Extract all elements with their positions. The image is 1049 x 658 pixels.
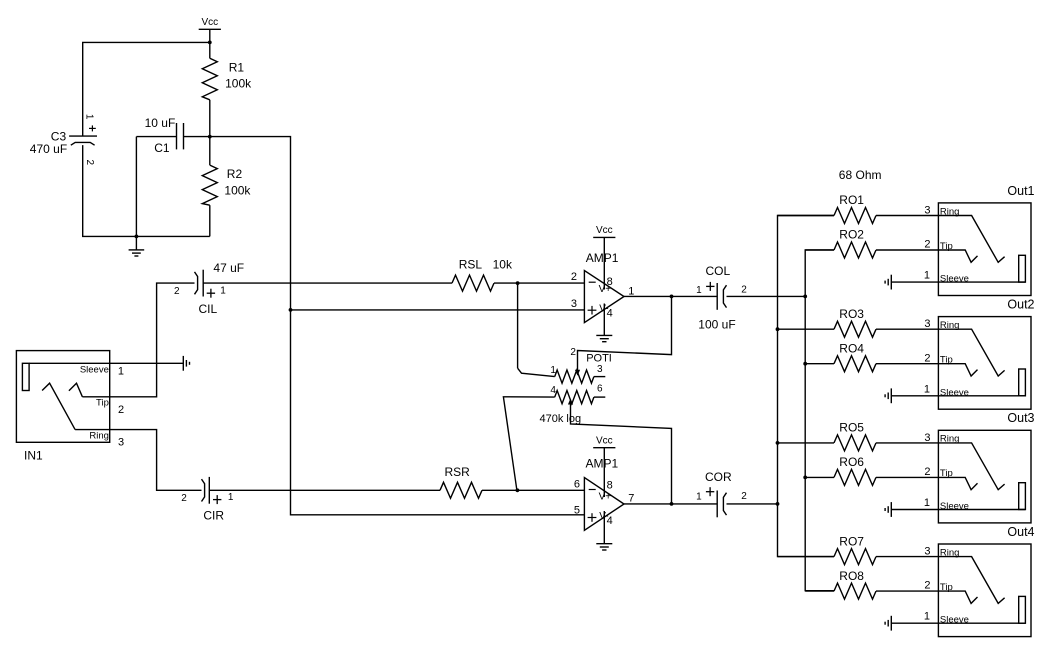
- svg-text:1: 1: [228, 492, 234, 503]
- wire POTI wiper A to output (left ch): [578, 296, 672, 370]
- connector Out3 jack body: [938, 430, 1031, 523]
- svg-text:3: 3: [924, 546, 930, 558]
- svg-text:6: 6: [574, 478, 580, 490]
- wire POTI wiper B to output (right ch): [571, 404, 672, 504]
- junction R1/R2/C1 node: [208, 135, 212, 139]
- AMP1 bottom inverting input mark -: [589, 489, 596, 491]
- wire IN1 tip to CIL: [110, 283, 195, 397]
- wire RO6 to Out3 tip: [876, 476, 938, 478]
- svg-text:7: 7: [628, 493, 634, 505]
- wire tip bus to RO4: [805, 363, 834, 365]
- ground (IN1 sleeve): [182, 356, 184, 371]
- svg-text:RO1: RO1: [839, 193, 864, 207]
- svg-text:RO6: RO6: [839, 455, 864, 469]
- svg-text:Out2: Out2: [1007, 298, 1034, 312]
- wire AMP1 bottom output: [624, 503, 717, 505]
- connector Out1 jack body: [938, 203, 1031, 296]
- svg-text:3: 3: [924, 432, 930, 444]
- svg-text:1: 1: [924, 383, 930, 395]
- svg-text:Ring: Ring: [940, 547, 960, 558]
- svg-text:Ring: Ring: [940, 206, 960, 217]
- capacitor CIL: [202, 270, 204, 297]
- svg-text:AMP1: AMP1: [586, 251, 619, 265]
- COL polarity +: [706, 285, 714, 287]
- wire tip bus to RO2: [805, 249, 834, 251]
- svg-text:8: 8: [607, 276, 613, 288]
- svg-text:Tip: Tip: [940, 355, 953, 366]
- ground (AMP1 bottom): [596, 543, 612, 545]
- AMP1 top pin 4 stem: [603, 304, 605, 336]
- Out1 ring contact: [938, 216, 1004, 263]
- svg-text:Sleeve: Sleeve: [940, 615, 969, 626]
- svg-text:1: 1: [924, 270, 930, 282]
- svg-text:R1: R1: [229, 61, 245, 75]
- AMP1 bottom pin 4 stem: [603, 511, 605, 544]
- Out3 sleeve contact: [1019, 483, 1026, 510]
- svg-text:RO7: RO7: [839, 534, 864, 548]
- junction AMP1 bottom output node: [670, 502, 674, 506]
- svg-text:Sleeve: Sleeve: [940, 387, 969, 398]
- svg-text:Sleeve: Sleeve: [940, 274, 969, 285]
- capacitor C1: [136, 136, 176, 138]
- svg-text:68 Ohm: 68 Ohm: [839, 168, 882, 182]
- junction RSR/pin6/POTI-4 node: [516, 488, 520, 492]
- ground (bias network): [135, 236, 137, 250]
- svg-text:Sleeve: Sleeve: [80, 364, 109, 375]
- svg-text:2: 2: [118, 404, 124, 416]
- svg-text:Out1: Out1: [1007, 184, 1034, 198]
- svg-text:Vcc: Vcc: [596, 225, 613, 236]
- svg-text:CIR: CIR: [203, 509, 224, 523]
- svg-text:1: 1: [118, 366, 124, 378]
- svg-text:Tip: Tip: [940, 468, 953, 479]
- wire ground to Out4 sleeve: [891, 622, 1025, 624]
- resistor RO6: [834, 469, 876, 485]
- svg-text:RO3: RO3: [839, 307, 864, 321]
- IN1 ring contact: [42, 383, 75, 429]
- svg-text:470k log: 470k log: [540, 413, 582, 425]
- wire RO4 to Out2 tip: [876, 363, 938, 365]
- Out3 ring contact: [938, 443, 1004, 490]
- wire RSL to AMP1 pin 2: [494, 282, 584, 284]
- AMP1 bottom non-inverting input mark +: [588, 517, 597, 519]
- svg-text:100k: 100k: [224, 184, 251, 198]
- resistor RO3: [834, 321, 876, 337]
- wire RO8 to Out4 tip: [876, 590, 938, 592]
- COR polarity +: [706, 491, 714, 493]
- Out4 ring contact: [938, 557, 1004, 604]
- op-amp AMP1 (left channel) triangle: [584, 271, 624, 323]
- Out1 sleeve contact: [1019, 255, 1026, 282]
- svg-text:2: 2: [924, 239, 930, 251]
- wire Vcc node to C3 top: [83, 42, 210, 136]
- Out2 tip contact: [938, 364, 977, 376]
- junction COR to ring bus: [776, 502, 780, 506]
- svg-text:RO8: RO8: [839, 569, 864, 583]
- wire bias node to vertical bus: [210, 137, 585, 515]
- svg-text:2: 2: [174, 286, 180, 297]
- svg-text:2: 2: [924, 466, 930, 478]
- svg-text:1: 1: [220, 286, 226, 297]
- svg-text:Out4: Out4: [1007, 525, 1034, 539]
- resistor RO7: [834, 549, 876, 565]
- IN1 sleeve contact: [22, 363, 29, 390]
- Out4 tip contact: [938, 591, 977, 603]
- wire C1 left to ground rail: [135, 137, 137, 237]
- resistor R2: [209, 137, 211, 166]
- svg-text:RSR: RSR: [445, 465, 471, 479]
- svg-text:3: 3: [924, 318, 930, 330]
- resistor R1: [209, 42, 211, 58]
- svg-text:2: 2: [571, 271, 577, 283]
- svg-text:1: 1: [84, 114, 95, 120]
- wire IN1 sleeve to ground: [110, 362, 184, 364]
- resistor RO2: [834, 242, 876, 258]
- svg-text:Ring: Ring: [940, 320, 960, 331]
- wire RO3 to Out2 ring: [876, 328, 938, 330]
- svg-text:2: 2: [84, 160, 95, 166]
- POTI gang A lead pin 3: [594, 376, 605, 378]
- svg-text:2: 2: [570, 347, 576, 358]
- svg-text:RO2: RO2: [839, 228, 864, 242]
- svg-text:4: 4: [550, 385, 556, 396]
- svg-text:CIL: CIL: [199, 302, 218, 316]
- svg-text:1: 1: [924, 497, 930, 509]
- Out2 sleeve contact: [1019, 369, 1026, 396]
- ground (Out1 sleeve): [890, 275, 892, 290]
- svg-text:Out3: Out3: [1007, 411, 1034, 425]
- junction ring bus to RO5: [776, 441, 780, 445]
- svg-text:POTI: POTI: [586, 353, 612, 365]
- POTI gang B wiper arrow: [568, 399, 573, 405]
- svg-text:Tip: Tip: [940, 241, 953, 252]
- wire AMP1 top output: [624, 295, 717, 297]
- svg-text:1: 1: [550, 365, 556, 376]
- svg-text:6: 6: [597, 383, 603, 394]
- connector IN1 jack body: [16, 351, 109, 443]
- svg-text:8: 8: [607, 479, 613, 491]
- svg-text:3: 3: [597, 364, 603, 375]
- junction RSL/pin2/POTI-1 node: [516, 281, 520, 285]
- wire ring bus to RO1: [778, 215, 835, 217]
- connector Out4 jack body: [938, 544, 1031, 637]
- AMP1 top non-inverting input mark +: [588, 309, 597, 311]
- capacitor COR: [716, 491, 718, 518]
- junction COL to tip bus: [803, 295, 807, 299]
- capacitor COL: [716, 283, 718, 310]
- wire POTI pin 4 to inverting node (right ch): [503, 397, 554, 491]
- capacitor C3: [69, 135, 97, 137]
- svg-text:2: 2: [924, 352, 930, 364]
- AMP1 top inverting input mark -: [589, 281, 596, 283]
- op-amp AMP1 (right channel) triangle: [584, 478, 624, 531]
- svg-text:RO4: RO4: [839, 341, 864, 355]
- wire ring bus to RO5: [778, 442, 835, 444]
- C3 polarity +: [89, 127, 96, 129]
- Out4 sleeve contact: [1019, 596, 1026, 623]
- svg-text:IN1: IN1: [24, 448, 43, 462]
- svg-text:4: 4: [607, 515, 613, 527]
- potentiometer POTI gang A element: [555, 370, 594, 383]
- wire RSR to AMP1 pin 6: [482, 489, 584, 491]
- svg-text:C1: C1: [154, 141, 170, 155]
- junction tip bus to RO6: [803, 476, 807, 480]
- wire ring bus to RO3: [778, 328, 835, 330]
- wire RO5 to Out3 ring: [876, 442, 938, 444]
- svg-text:100 uF: 100 uF: [698, 318, 735, 332]
- CIR polarity +: [213, 499, 221, 501]
- svg-text:Sleeve: Sleeve: [940, 501, 969, 512]
- svg-text:1: 1: [696, 285, 702, 296]
- resistor RSR: [440, 482, 482, 498]
- resistor RO4: [834, 356, 876, 372]
- Out3 tip contact: [938, 477, 977, 489]
- junction tip bus to RO4: [803, 362, 807, 366]
- ground (Out4 sleeve): [890, 616, 892, 631]
- junction ring bus to RO3: [776, 327, 780, 331]
- junction bias bus to op-amp pin3 branch: [289, 308, 293, 312]
- wire ring bus (right channel): [778, 216, 835, 557]
- svg-text:3: 3: [571, 298, 577, 310]
- svg-text:Ring: Ring: [89, 431, 109, 442]
- svg-text:4: 4: [607, 308, 613, 320]
- svg-text:5: 5: [574, 505, 580, 517]
- wire bias bus to AMP1 pin 3: [291, 309, 585, 311]
- svg-text:10 uF: 10 uF: [145, 116, 176, 130]
- junction AMP1 top output node: [670, 295, 674, 299]
- connector Out2 jack body: [938, 317, 1031, 410]
- svg-text:AMP1: AMP1: [586, 457, 619, 471]
- svg-text:47 uF: 47 uF: [213, 261, 244, 275]
- POTI gang B lead pin 6: [594, 396, 605, 398]
- CIL polarity +: [207, 292, 215, 294]
- IN1 tip contact: [69, 383, 83, 397]
- svg-text:Tip: Tip: [940, 582, 953, 593]
- svg-text:2: 2: [741, 491, 747, 502]
- junction Vcc/R1/C3 node: [208, 41, 212, 45]
- svg-text:10k: 10k: [493, 257, 513, 271]
- junction ground rail node: [135, 235, 139, 239]
- svg-text:RO5: RO5: [839, 421, 864, 435]
- svg-text:1: 1: [696, 492, 702, 503]
- wire ground to Out2 sleeve: [891, 395, 1025, 397]
- wire ring bus to RO7: [778, 556, 835, 558]
- wire ground to Out1 sleeve: [891, 281, 1025, 283]
- ground (Out2 sleeve): [890, 388, 892, 403]
- capacitor CIR: [208, 477, 210, 504]
- svg-text:Tip: Tip: [96, 398, 109, 409]
- svg-text:3: 3: [118, 437, 124, 449]
- svg-text:1: 1: [924, 611, 930, 623]
- resistor RO8: [834, 583, 876, 599]
- svg-text:COR: COR: [705, 470, 732, 484]
- resistor RO5: [834, 435, 876, 451]
- wire IN1 ring to CIR: [110, 430, 202, 491]
- POTI gang A wiper arrow: [575, 370, 580, 376]
- svg-text:100k: 100k: [225, 76, 252, 90]
- ground (AMP1 top): [596, 334, 612, 336]
- wire tip bus (left channel): [805, 250, 834, 591]
- wire RO7 to Out4 ring: [876, 556, 938, 558]
- wire RO1 to Out1 ring: [876, 215, 938, 217]
- wire tip bus to RO6: [805, 476, 834, 478]
- wire tip bus to RO8: [805, 590, 834, 592]
- ground (Out3 sleeve): [890, 502, 892, 517]
- svg-text:Vcc: Vcc: [596, 435, 613, 446]
- Out1 tip contact: [938, 250, 977, 262]
- svg-text:3: 3: [924, 204, 930, 216]
- resistor RSL: [452, 275, 494, 291]
- svg-text:Vcc: Vcc: [201, 17, 218, 28]
- resistor RO1: [834, 208, 876, 224]
- svg-text:RSL: RSL: [459, 257, 483, 271]
- svg-text:Ring: Ring: [940, 434, 960, 445]
- wire ground to Out3 sleeve: [891, 509, 1025, 511]
- svg-text:COL: COL: [706, 264, 731, 278]
- Out2 ring contact: [938, 329, 1004, 376]
- wire RO2 to Out1 tip: [876, 249, 938, 251]
- wire POTI pin 1 to inverting node (left ch): [517, 283, 519, 368]
- POTI gang B element: [555, 391, 594, 404]
- svg-text:2: 2: [924, 580, 930, 592]
- svg-text:2: 2: [181, 493, 187, 504]
- svg-text:470 uF: 470 uF: [30, 142, 67, 156]
- svg-text:R2: R2: [227, 167, 243, 181]
- svg-text:2: 2: [741, 285, 747, 296]
